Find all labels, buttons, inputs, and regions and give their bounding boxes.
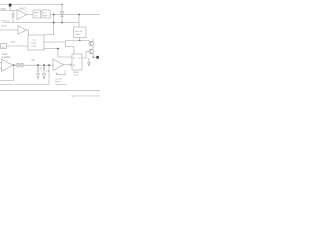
block REF OK xyxy=(33,10,41,18)
wire Q2 emitter to ground xyxy=(88,58,90,63)
svg-text:−: − xyxy=(18,18,19,20)
wire RT/CT to logic box xyxy=(7,45,29,47)
op-amp U1 UVLO comparator xyxy=(17,10,27,20)
wire VREF branch down to logic box xyxy=(44,15,54,35)
node divider junction R xyxy=(37,64,39,66)
ground G3 xyxy=(88,63,90,67)
wire logic box lower output xyxy=(44,48,58,50)
ground G2 xyxy=(43,74,46,79)
node CS junction xyxy=(48,64,50,66)
wire UVLO output xyxy=(26,14,33,16)
wire comparator output xyxy=(64,64,70,66)
zener D5 1V clamp xyxy=(43,65,45,67)
transistor Q1 xyxy=(89,41,94,46)
svg-text:R: R xyxy=(73,65,75,68)
wire blanking to latch xyxy=(58,49,72,57)
wire internal supply rail xyxy=(3,22,79,24)
wire latch Q to output stage xyxy=(82,51,89,58)
pin OUT terminal square xyxy=(96,56,99,59)
wire VREF output to right edge xyxy=(50,14,100,16)
diode D4 circled xyxy=(20,63,24,67)
svg-text:OK: OK xyxy=(34,16,38,18)
svg-text:+: + xyxy=(2,69,3,71)
node inverter bubble xyxy=(70,64,72,66)
node stub terminal xyxy=(56,73,58,75)
svg-text:5 V: 5 V xyxy=(43,13,47,15)
diode D3 circled xyxy=(16,63,20,67)
wire latch bottom stub xyxy=(58,71,65,75)
wire VDD pin drop xyxy=(9,7,11,11)
wire OUT xyxy=(93,56,96,58)
svg-text:2.5 V: 2.5 V xyxy=(1,25,7,28)
svg-text:Pulse: Pulse xyxy=(31,42,37,44)
svg-text:2R: 2R xyxy=(32,59,35,62)
pin RT/CT terminal xyxy=(1,44,7,49)
block PWM latch U7 xyxy=(72,54,82,70)
node blanking junction xyxy=(57,48,59,50)
svg-text:Latch: Latch xyxy=(73,74,79,77)
svg-text:Osc: Osc xyxy=(32,39,37,41)
svg-text:Q: Q xyxy=(79,57,81,60)
svg-text:+: + xyxy=(18,13,19,15)
wire error amp output xyxy=(13,64,17,66)
wire bottom rule xyxy=(0,90,100,92)
svg-text:Error: Error xyxy=(2,53,7,56)
wire clock to PWM latch S input xyxy=(66,42,75,54)
wire buffer output to logic xyxy=(26,30,29,35)
node drive rail junction xyxy=(79,40,80,41)
wire ref input xyxy=(0,67,2,69)
svg-text:Bias: Bias xyxy=(76,34,81,36)
svg-text:R: R xyxy=(40,68,42,70)
svg-text:S: S xyxy=(73,57,75,60)
wire FB input xyxy=(0,62,2,64)
svg-text:REF: REF xyxy=(34,13,39,15)
wire logic output drive rail xyxy=(44,41,89,43)
resistor R xyxy=(37,65,39,67)
wire VDD top rail xyxy=(0,4,62,6)
svg-text:Logic: Logic xyxy=(31,45,37,47)
transistor Q2 xyxy=(89,49,94,54)
wire divider input xyxy=(24,64,53,66)
node divider junction Z xyxy=(43,64,45,66)
svg-text:−: − xyxy=(54,68,55,70)
block oscillator logic U4 xyxy=(28,35,44,50)
svg-text:UVLO: UVLO xyxy=(19,8,26,11)
op-amp U6 current sense comparator xyxy=(53,59,64,71)
svg-text:Current: Current xyxy=(55,77,63,80)
node error amp output xyxy=(13,64,15,66)
block 5V REF xyxy=(42,10,50,18)
svg-text:Internal: Internal xyxy=(75,30,83,33)
block internal bias U2 xyxy=(74,27,87,38)
svg-text:Comparator: Comparator xyxy=(55,83,67,86)
svg-text:CLK: CLK xyxy=(11,42,16,44)
node rail junction A xyxy=(53,22,55,24)
svg-text:REF: REF xyxy=(43,16,48,18)
svg-text:VDD: VDD xyxy=(1,9,6,11)
svg-text:Copyright © 2016, Texas Instru: Copyright © 2016, Texas Instruments Inco… xyxy=(71,94,100,97)
wire CS sense input xyxy=(48,65,50,84)
wire internal bias to drive rail xyxy=(79,38,81,41)
pin VDD terminal square xyxy=(9,4,12,7)
svg-text:Sense: Sense xyxy=(55,81,62,83)
ground G1 xyxy=(37,74,40,79)
node junction on VREF wire xyxy=(53,14,55,16)
node rail junction B xyxy=(61,22,63,24)
svg-text:+: + xyxy=(54,62,55,64)
wire 2.5V input xyxy=(0,29,18,31)
diode D2 xyxy=(61,5,63,13)
svg-text:PWM: PWM xyxy=(73,72,79,74)
svg-text:Amplifier: Amplifier xyxy=(2,56,11,59)
svg-text:−: − xyxy=(2,63,3,65)
wire internal bias feed xyxy=(78,15,80,28)
node VDD input wire xyxy=(0,10,17,12)
op-amp U3 buffer xyxy=(18,26,27,34)
wire COMP feedback xyxy=(0,65,14,80)
node OUT junction xyxy=(93,57,94,58)
zener D1 xyxy=(12,11,14,15)
node VREF wire junction C xyxy=(78,14,80,16)
wire output rail xyxy=(92,39,94,42)
